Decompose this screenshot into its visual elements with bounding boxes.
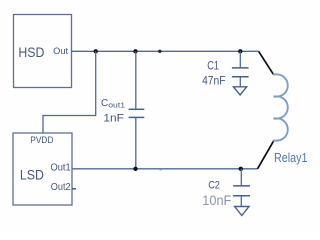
node: small joint dot on top wire (158, 50, 161, 53)
pin stub Out2 (72, 188, 76, 190)
wire: PVDD feed (down, left, down to LSD PVDD pin) (43, 51, 96, 133)
svg-text:HSD: HSD (18, 44, 44, 60)
node: junction dot at PVDD branch (94, 49, 98, 53)
svg-text:PVDD: PVDD (30, 134, 53, 145)
capacitor C1 bottom lead (239, 77, 241, 86)
svg-text:Out1: Out1 (51, 163, 71, 174)
svg-text:10nF: 10nF (202, 193, 231, 208)
capacitor Cout1 top lead (135, 51, 137, 108)
svg-text:C1: C1 (207, 59, 219, 73)
capacitor C1 top lead (239, 51, 241, 67)
ground below C2 (235, 207, 249, 216)
HSD block U1 (14, 15, 72, 88)
svg-text:LSD: LSD (20, 166, 44, 182)
capacitor C2 plates (233, 185, 250, 187)
capacitor Cout1 bottom lead (135, 118, 137, 169)
capacitor C1 plates (232, 67, 249, 69)
node: junction dot Cout1 bottom (133, 167, 137, 171)
svg-text:47nF: 47nF (202, 74, 225, 88)
wire: diagonal from top net to relay coil (black) (259, 51, 274, 75)
wire: diagonal from bottom net to relay coil (black) (258, 141, 274, 169)
svg-text:Out2: Out2 (51, 182, 71, 193)
node: junction dot at C2 (239, 167, 243, 171)
wire: HSD Out to relay top (horizontal) (72, 50, 259, 52)
ground below C1 (233, 87, 246, 95)
svg-text:Relay1: Relay1 (274, 150, 308, 165)
capacitor Cout1 plates (129, 108, 145, 110)
node: faint joint dot on bottom wire (159, 168, 162, 171)
node: junction dot at C1 (238, 49, 242, 53)
svg-text:C2: C2 (208, 179, 220, 191)
wire: LSD Out1 to relay bottom (horizontal) (72, 168, 257, 170)
inductor Relay1 coil (274, 74, 288, 140)
LSD block U2 (13, 133, 72, 205)
capacitor C2 top lead (240, 169, 242, 185)
node: junction dot at Cout1 branch (133, 49, 137, 53)
svg-text:Out: Out (53, 46, 68, 56)
svg-text:Cout1: Cout1 (101, 98, 125, 110)
capacitor C2 bottom lead (240, 196, 242, 206)
svg-text:1nF: 1nF (103, 112, 124, 124)
